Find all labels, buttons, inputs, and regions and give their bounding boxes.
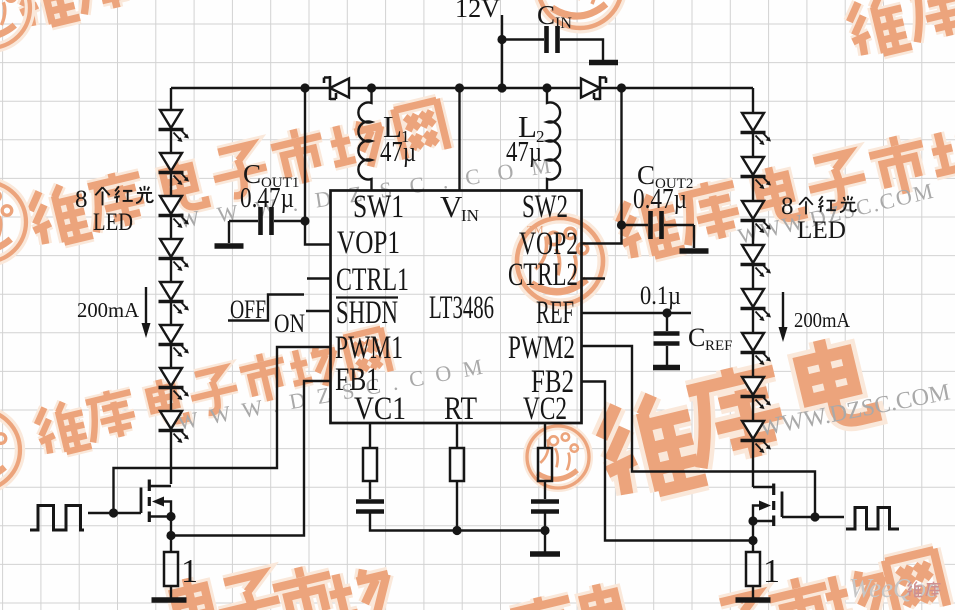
LED right 5 bbox=[741, 289, 772, 321]
svg-text:CTRL2: CTRL2 bbox=[508, 257, 578, 293]
switch OFF/ON step symbol bbox=[228, 295, 305, 339]
transistor Q2 NMOS bbox=[753, 484, 782, 527]
svg-text:0.47µ: 0.47µ bbox=[240, 183, 294, 214]
node bus x=547 bbox=[542, 83, 551, 92]
svg-text:PWM2: PWM2 bbox=[508, 330, 575, 366]
label CREF bbox=[688, 323, 733, 354]
node RT bottom bbox=[452, 526, 461, 535]
svg-text:WeeQoo: WeeQoo bbox=[849, 573, 939, 603]
pulse source right bbox=[846, 508, 899, 530]
wire CTRL1 stub bbox=[307, 277, 331, 279]
wire source to R1 bbox=[170, 517, 172, 553]
LED right 3 bbox=[741, 201, 772, 233]
wire VC1 bbox=[369, 423, 371, 448]
svg-text:SHDN: SHDN bbox=[336, 295, 398, 331]
LED left 5 bbox=[159, 282, 190, 314]
node Q2 source bbox=[748, 516, 757, 525]
wire gate right bbox=[782, 516, 844, 518]
wire R2 to ground bbox=[752, 586, 754, 598]
wire R1 to ground bbox=[170, 586, 172, 598]
svg-text:SW1: SW1 bbox=[353, 189, 404, 225]
svg-text:PWM1: PWM1 bbox=[335, 330, 403, 366]
svg-text:47µ: 47µ bbox=[506, 137, 542, 168]
svg-text:200mA: 200mA bbox=[794, 308, 851, 332]
label COUT1 bbox=[243, 159, 299, 191]
inductor L2 bbox=[547, 88, 560, 191]
svg-text:LED: LED bbox=[797, 217, 846, 244]
node Q1 source bbox=[166, 512, 175, 521]
resistor R3 VC1 bbox=[363, 448, 377, 481]
capacitor C2 VC2 bbox=[531, 502, 559, 512]
wire PWM2 bbox=[582, 346, 816, 517]
transistor Q1 NMOS bbox=[141, 480, 171, 523]
svg-text:V: V bbox=[440, 189, 463, 224]
wire RT bbox=[456, 423, 458, 448]
wire main top bus bbox=[171, 87, 753, 89]
capacitor CREF bbox=[654, 313, 680, 365]
wire PWM1 bbox=[114, 347, 331, 512]
svg-text:REF: REF bbox=[705, 338, 733, 354]
wire bbox=[370, 514, 545, 531]
node FB1 sense bbox=[166, 531, 175, 540]
wire 12V input bbox=[501, 15, 503, 88]
label 8 red LED left bbox=[75, 186, 153, 236]
svg-text:VC1: VC1 bbox=[354, 391, 406, 427]
svg-text:0.47µ: 0.47µ bbox=[633, 184, 687, 215]
node COUT2 bbox=[617, 220, 626, 229]
LED right 8 bbox=[741, 421, 772, 453]
diode D2 Schottky bbox=[581, 76, 606, 100]
wire left LED string bbox=[170, 88, 172, 484]
LED left 4 bbox=[159, 239, 190, 271]
capacitor C1 VC1 bbox=[356, 502, 384, 512]
wire SHDN stub bbox=[306, 310, 331, 312]
IC U1 LT3486 outline bbox=[331, 191, 582, 424]
wire bbox=[544, 481, 546, 499]
label 8 red LED right bbox=[781, 193, 856, 244]
resistor R1 left 1ohm bbox=[164, 552, 178, 586]
svg-text:CTRL1: CTRL1 bbox=[336, 262, 409, 298]
resistor R2 right 1ohm bbox=[746, 552, 760, 586]
capacitor COUT2 bbox=[622, 211, 695, 248]
resistor R4 RT bbox=[450, 448, 464, 481]
wire VOP2 column bbox=[582, 88, 622, 244]
node REF/CREF bbox=[662, 308, 671, 317]
LED left 8 bbox=[159, 411, 190, 443]
wire VIN bbox=[458, 88, 460, 191]
LED left 1 bbox=[159, 110, 190, 142]
LED left 3 bbox=[159, 196, 190, 228]
node bus x=459.5 bbox=[455, 83, 464, 92]
node bus x=371.5 bbox=[367, 83, 376, 92]
svg-text:IN: IN bbox=[555, 15, 572, 32]
label L1 bbox=[383, 109, 410, 146]
label L2 bbox=[518, 109, 545, 146]
svg-text:C: C bbox=[537, 0, 555, 30]
label COUT2 bbox=[637, 160, 693, 192]
capacitor CIN bbox=[547, 26, 558, 53]
wire bbox=[544, 514, 546, 553]
wire REF bbox=[582, 312, 692, 314]
svg-text:LT3486: LT3486 bbox=[429, 290, 494, 326]
pin label SHDN with overline bbox=[336, 295, 398, 331]
svg-text:0.1µ: 0.1µ bbox=[640, 281, 681, 310]
svg-text:1: 1 bbox=[181, 553, 198, 590]
current arrow right 200mA bbox=[779, 292, 851, 342]
node bus x=621.5 bbox=[617, 83, 626, 92]
capacitor COUT1 bbox=[229, 207, 305, 243]
svg-text:OFF: OFF bbox=[230, 295, 266, 324]
svg-text:RT: RT bbox=[444, 391, 477, 427]
LED right 6 bbox=[741, 333, 772, 365]
node bus x=502 bbox=[497, 83, 506, 92]
wire bbox=[502, 38, 544, 40]
current arrow left 200mA bbox=[77, 287, 151, 338]
node gate right bbox=[810, 512, 819, 521]
svg-text:VOP1: VOP1 bbox=[337, 225, 400, 261]
LED right 2 bbox=[741, 157, 772, 189]
svg-text:12V: 12V bbox=[455, 0, 500, 23]
node VC2 bottom bbox=[540, 526, 549, 535]
LED left 2 bbox=[159, 153, 190, 185]
svg-text:C: C bbox=[688, 323, 705, 352]
svg-text:REF: REF bbox=[536, 295, 574, 331]
LED left 7 bbox=[159, 368, 190, 400]
wire right LED string bbox=[752, 88, 754, 487]
node bus x=305 bbox=[300, 83, 309, 92]
diode D1 Schottky bbox=[324, 76, 349, 100]
svg-text:8: 8 bbox=[781, 193, 794, 220]
ground CREF bbox=[653, 365, 680, 371]
LED right 7 bbox=[741, 377, 772, 409]
wire FB1 bbox=[171, 381, 331, 536]
LED right 4 bbox=[741, 245, 772, 277]
resistor R5 VC2 bbox=[538, 448, 552, 481]
inductor L1 bbox=[358, 88, 371, 191]
LED left 6 bbox=[159, 325, 190, 357]
node FB2 sense bbox=[748, 536, 757, 545]
svg-text:VC2: VC2 bbox=[523, 391, 567, 427]
wire VC2 bbox=[544, 423, 546, 448]
wire bbox=[560, 40, 603, 61]
svg-text:ON: ON bbox=[274, 309, 305, 338]
wire gate left bbox=[88, 512, 141, 514]
wire CTRL2 stub bbox=[582, 277, 606, 279]
svg-text:IN: IN bbox=[461, 206, 479, 225]
pin label VIN bbox=[440, 189, 479, 225]
label CIN bbox=[537, 0, 572, 32]
pulse source left bbox=[30, 506, 84, 531]
wire VOP1 column bbox=[305, 88, 331, 245]
svg-text:47µ: 47µ bbox=[380, 137, 416, 168]
ground R1 bbox=[152, 597, 187, 603]
ground CIN bbox=[589, 60, 618, 66]
LED right 1 bbox=[741, 113, 772, 145]
svg-text:200mA: 200mA bbox=[77, 298, 140, 322]
ground COUT1 bbox=[215, 243, 244, 249]
ground VC2 bbox=[530, 551, 560, 557]
svg-text:LED: LED bbox=[93, 209, 133, 236]
node 12V/CIN bbox=[497, 35, 506, 44]
node gate left bbox=[109, 508, 118, 517]
svg-text:1: 1 bbox=[763, 553, 780, 590]
wire source to R2 bbox=[752, 521, 754, 552]
ground COUT2 bbox=[680, 248, 709, 254]
svg-text:SW2: SW2 bbox=[522, 189, 568, 225]
wire FB2 bbox=[582, 382, 754, 541]
wire bbox=[369, 481, 371, 499]
node COUT1 bbox=[300, 216, 309, 225]
svg-text:8: 8 bbox=[75, 186, 88, 213]
wire bbox=[456, 481, 458, 531]
ground R2 bbox=[736, 597, 771, 603]
